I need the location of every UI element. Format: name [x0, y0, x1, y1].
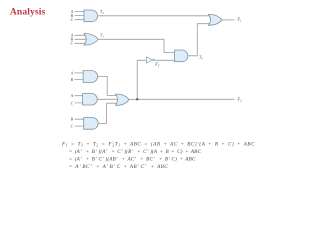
wire F1 output	[222, 19, 235, 21]
wire AC output to F2 OR	[98, 98, 120, 100]
gate AND T2 (inputs A,B,C)	[84, 10, 98, 22]
svg-text:= (A’ + B’)(A’ + C’)(B’ + C’)(: = (A’ + B’)(A’ + C’)(B’ + C’)(A + B + C)…	[69, 148, 202, 155]
svg-text:F’2: F’2	[154, 61, 159, 67]
svg-text:F2: F2	[237, 97, 243, 103]
wire T2 output to F1 gate	[98, 15, 210, 17]
svg-text:C: C	[71, 125, 74, 129]
svg-text:T3: T3	[199, 55, 203, 61]
gate OR F1	[209, 14, 222, 25]
wire T1 output down to T3 gate	[98, 39, 175, 52]
svg-text:T1: T1	[100, 33, 104, 39]
svg-text:B: B	[71, 78, 74, 82]
wire T2 inputs	[75, 12, 86, 20]
svg-text:Analysis: Analysis	[10, 7, 46, 18]
svg-text:= (A’ + B’C’)(AB’ + AC’ + BC’: = (A’ + B’C’)(AB’ + AC’ + BC’ + B’C) + A…	[69, 155, 196, 162]
node junction on F2 wire	[136, 98, 138, 100]
gate OR F2	[116, 94, 130, 105]
svg-text:= A’BC’ + A’B’C + AB’C’ + ABC: = A’BC’ + A’B’C + AB’C’ + ABC	[69, 164, 169, 170]
wire AB output down to F2 OR	[98, 77, 117, 96]
wire BC AND inputs	[75, 119, 85, 126]
svg-text:B: B	[71, 118, 74, 122]
wire F2 output	[129, 98, 235, 100]
svg-text:C: C	[71, 42, 74, 46]
wire inverter output to T3	[155, 59, 175, 61]
gate OR T1 (inputs A,B,C)	[84, 34, 98, 46]
wire BC output up to F2 OR	[98, 103, 117, 123]
wire T3 output up to F1 gate	[188, 24, 209, 56]
svg-text:A: A	[70, 94, 74, 98]
wire AC AND inputs	[75, 96, 85, 103]
svg-text:T2: T2	[100, 9, 104, 15]
svg-text:C: C	[71, 18, 74, 22]
inverter F'2	[146, 57, 152, 63]
svg-text:C: C	[71, 101, 74, 105]
svg-text:F1 = T3 + T2 = F’2T1 + ABC = (: F1 = T3 + T2 = F’2T1 + ABC = (AB + AC + …	[61, 140, 255, 147]
gate AND AC	[83, 94, 98, 106]
gate AND BC	[84, 118, 98, 130]
gate AND AB	[83, 71, 98, 83]
wire T1 inputs	[75, 35, 89, 43]
svg-text:F1: F1	[237, 17, 243, 23]
wire AB AND inputs	[75, 73, 85, 80]
gate AND T3	[175, 50, 188, 62]
wire F2 branch up to inverter	[137, 60, 146, 99]
svg-text:A: A	[70, 71, 74, 75]
